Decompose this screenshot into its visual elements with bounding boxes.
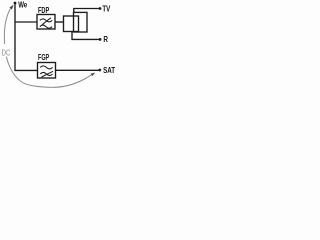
svg-text:R: R [103, 35, 108, 44]
svg-text:FDP: FDP [38, 6, 50, 15]
background [0, 0, 120, 94]
wire trunk to FDP [15, 21, 37, 23]
label R [103, 35, 108, 44]
label TV [102, 5, 110, 14]
wire to R [72, 32, 99, 39]
node R terminal dot [99, 38, 102, 41]
wire FGP to SAT [56, 69, 99, 71]
node We (antenna input terminal dot) [14, 2, 17, 5]
label SAT [103, 66, 115, 75]
svg-text:SAT: SAT [103, 66, 115, 75]
arrowhead at SAT (bottom-right of DC arc) [91, 73, 96, 77]
svg-text:We: We [18, 0, 27, 9]
arrowhead at We (top of DC arc) [9, 5, 13, 10]
filter FDP symbol: slashed wave over plain wave [40, 18, 52, 28]
filter FDP (box) [37, 15, 55, 30]
filter FGP symbol: plain wave over slashed wave [40, 66, 53, 77]
wire to TV [74, 9, 99, 13]
label We [18, 0, 27, 9]
node TV terminal dot [99, 7, 102, 10]
outlet box B (right rectangle, overlapping) [74, 12, 88, 32]
svg-text:TV: TV [102, 5, 110, 14]
label FGP [38, 53, 50, 62]
svg-text:DC: DC [2, 48, 11, 57]
trunk wire from We down and into FGP [15, 3, 38, 70]
node SAT terminal dot [98, 69, 101, 72]
outlet box A (left rectangle) [64, 16, 79, 32]
white gap for DC label over arc [0, 44, 12, 57]
label DC [2, 48, 11, 57]
wire FDP to outlet [55, 21, 64, 23]
filter FGP (box) [38, 63, 56, 79]
DC return arc (grey curved arrow from SAT up to We) [4, 8, 93, 88]
svg-text:FGP: FGP [38, 53, 50, 62]
label FDP [38, 6, 50, 15]
